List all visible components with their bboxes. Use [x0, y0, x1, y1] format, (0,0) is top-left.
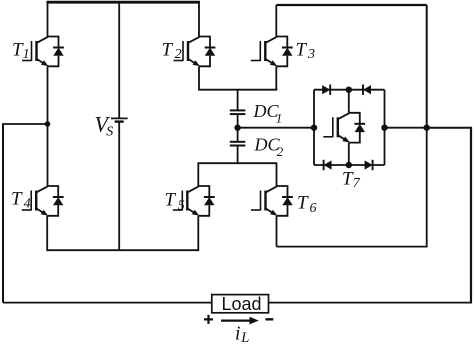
transistor T3 [251, 5, 315, 66]
wire right column below junction [426, 128, 428, 248]
current arrow iL [221, 317, 259, 325]
node bridge left [311, 125, 317, 131]
voltage source VS [95, 1, 128, 250]
wire load right [269, 302, 473, 304]
svg-text:T: T [297, 192, 309, 213]
svg-text:1: 1 [23, 47, 30, 62]
load box [212, 294, 269, 314]
transistor T7 [323, 90, 365, 191]
svg-text:4: 4 [24, 196, 31, 211]
label plus [204, 315, 213, 324]
wire rail to DC1 [237, 90, 239, 111]
wire T5-T6 collector rail [198, 162, 276, 164]
wire bottom-left rail (T4,VS,T5) [46, 249, 199, 251]
svg-text:7: 7 [353, 176, 361, 191]
svg-text:Load: Load [222, 294, 262, 314]
diode bridge bottom-right [365, 160, 373, 170]
wire DC midpoint to bridge left [238, 127, 314, 129]
node bridge right [381, 125, 387, 131]
wire top-right rail [276, 4, 426, 6]
transistor T4 [11, 186, 64, 216]
svg-text:S: S [106, 125, 113, 140]
node bridge top [346, 87, 352, 93]
wire T2 emitter stub [198, 66, 200, 89]
wire top-left DC+ rail [46, 1, 200, 4]
transistor T6 [251, 162, 317, 216]
wire to load left [3, 302, 212, 304]
transistor T5 [165, 162, 215, 215]
wire bridge right to output junction [385, 127, 427, 129]
wire midpoint tap to left edge [3, 123, 48, 125]
svg-text:T: T [296, 39, 308, 60]
transistor T1 [12, 2, 64, 66]
wire bottom-mid rail (T6 to right column) [277, 246, 427, 248]
svg-text:3: 3 [307, 47, 315, 62]
svg-text:6: 6 [310, 201, 317, 216]
wire T5 emitter [197, 216, 199, 250]
svg-text:T: T [11, 188, 23, 209]
wire left edge down [2, 123, 4, 302]
node bridge bottom [346, 162, 352, 168]
label minus [266, 318, 274, 320]
wire T4 emitter [46, 216, 48, 250]
wire T6 emitter [276, 216, 278, 247]
diode bridge bottom-left [324, 160, 332, 170]
wire T3 emitter stub [275, 66, 277, 89]
svg-text:i: i [235, 323, 240, 344]
svg-text:5: 5 [178, 198, 185, 213]
wire top-right rail drop [426, 5, 428, 128]
svg-text:1: 1 [276, 111, 283, 126]
capacitor DC1 [230, 101, 282, 126]
bridge frame of T7 [314, 90, 385, 165]
diode bridge top-right [363, 85, 371, 95]
svg-text:2: 2 [175, 47, 182, 62]
node DC midpoint [234, 125, 240, 131]
wire DC1 to DC2 [237, 114, 239, 142]
wire T2-T3 emitter rail [198, 89, 277, 91]
diode bridge top-left [322, 85, 330, 95]
node T1-T4 midpoint [45, 121, 51, 127]
label iL [235, 323, 249, 344]
svg-text:2: 2 [277, 144, 284, 159]
svg-text:T: T [162, 39, 174, 60]
svg-text:T: T [165, 189, 177, 210]
wire right edge down [470, 127, 472, 303]
svg-text:L: L [240, 330, 249, 344]
node output junction [424, 125, 430, 131]
capacitor DC2 [230, 134, 284, 159]
wire junction to right edge [427, 127, 471, 129]
transistor T2 [162, 2, 216, 66]
wire DC2 to bottom rail [237, 146, 239, 164]
wire T1 emitter to T4 collector [47, 66, 49, 186]
